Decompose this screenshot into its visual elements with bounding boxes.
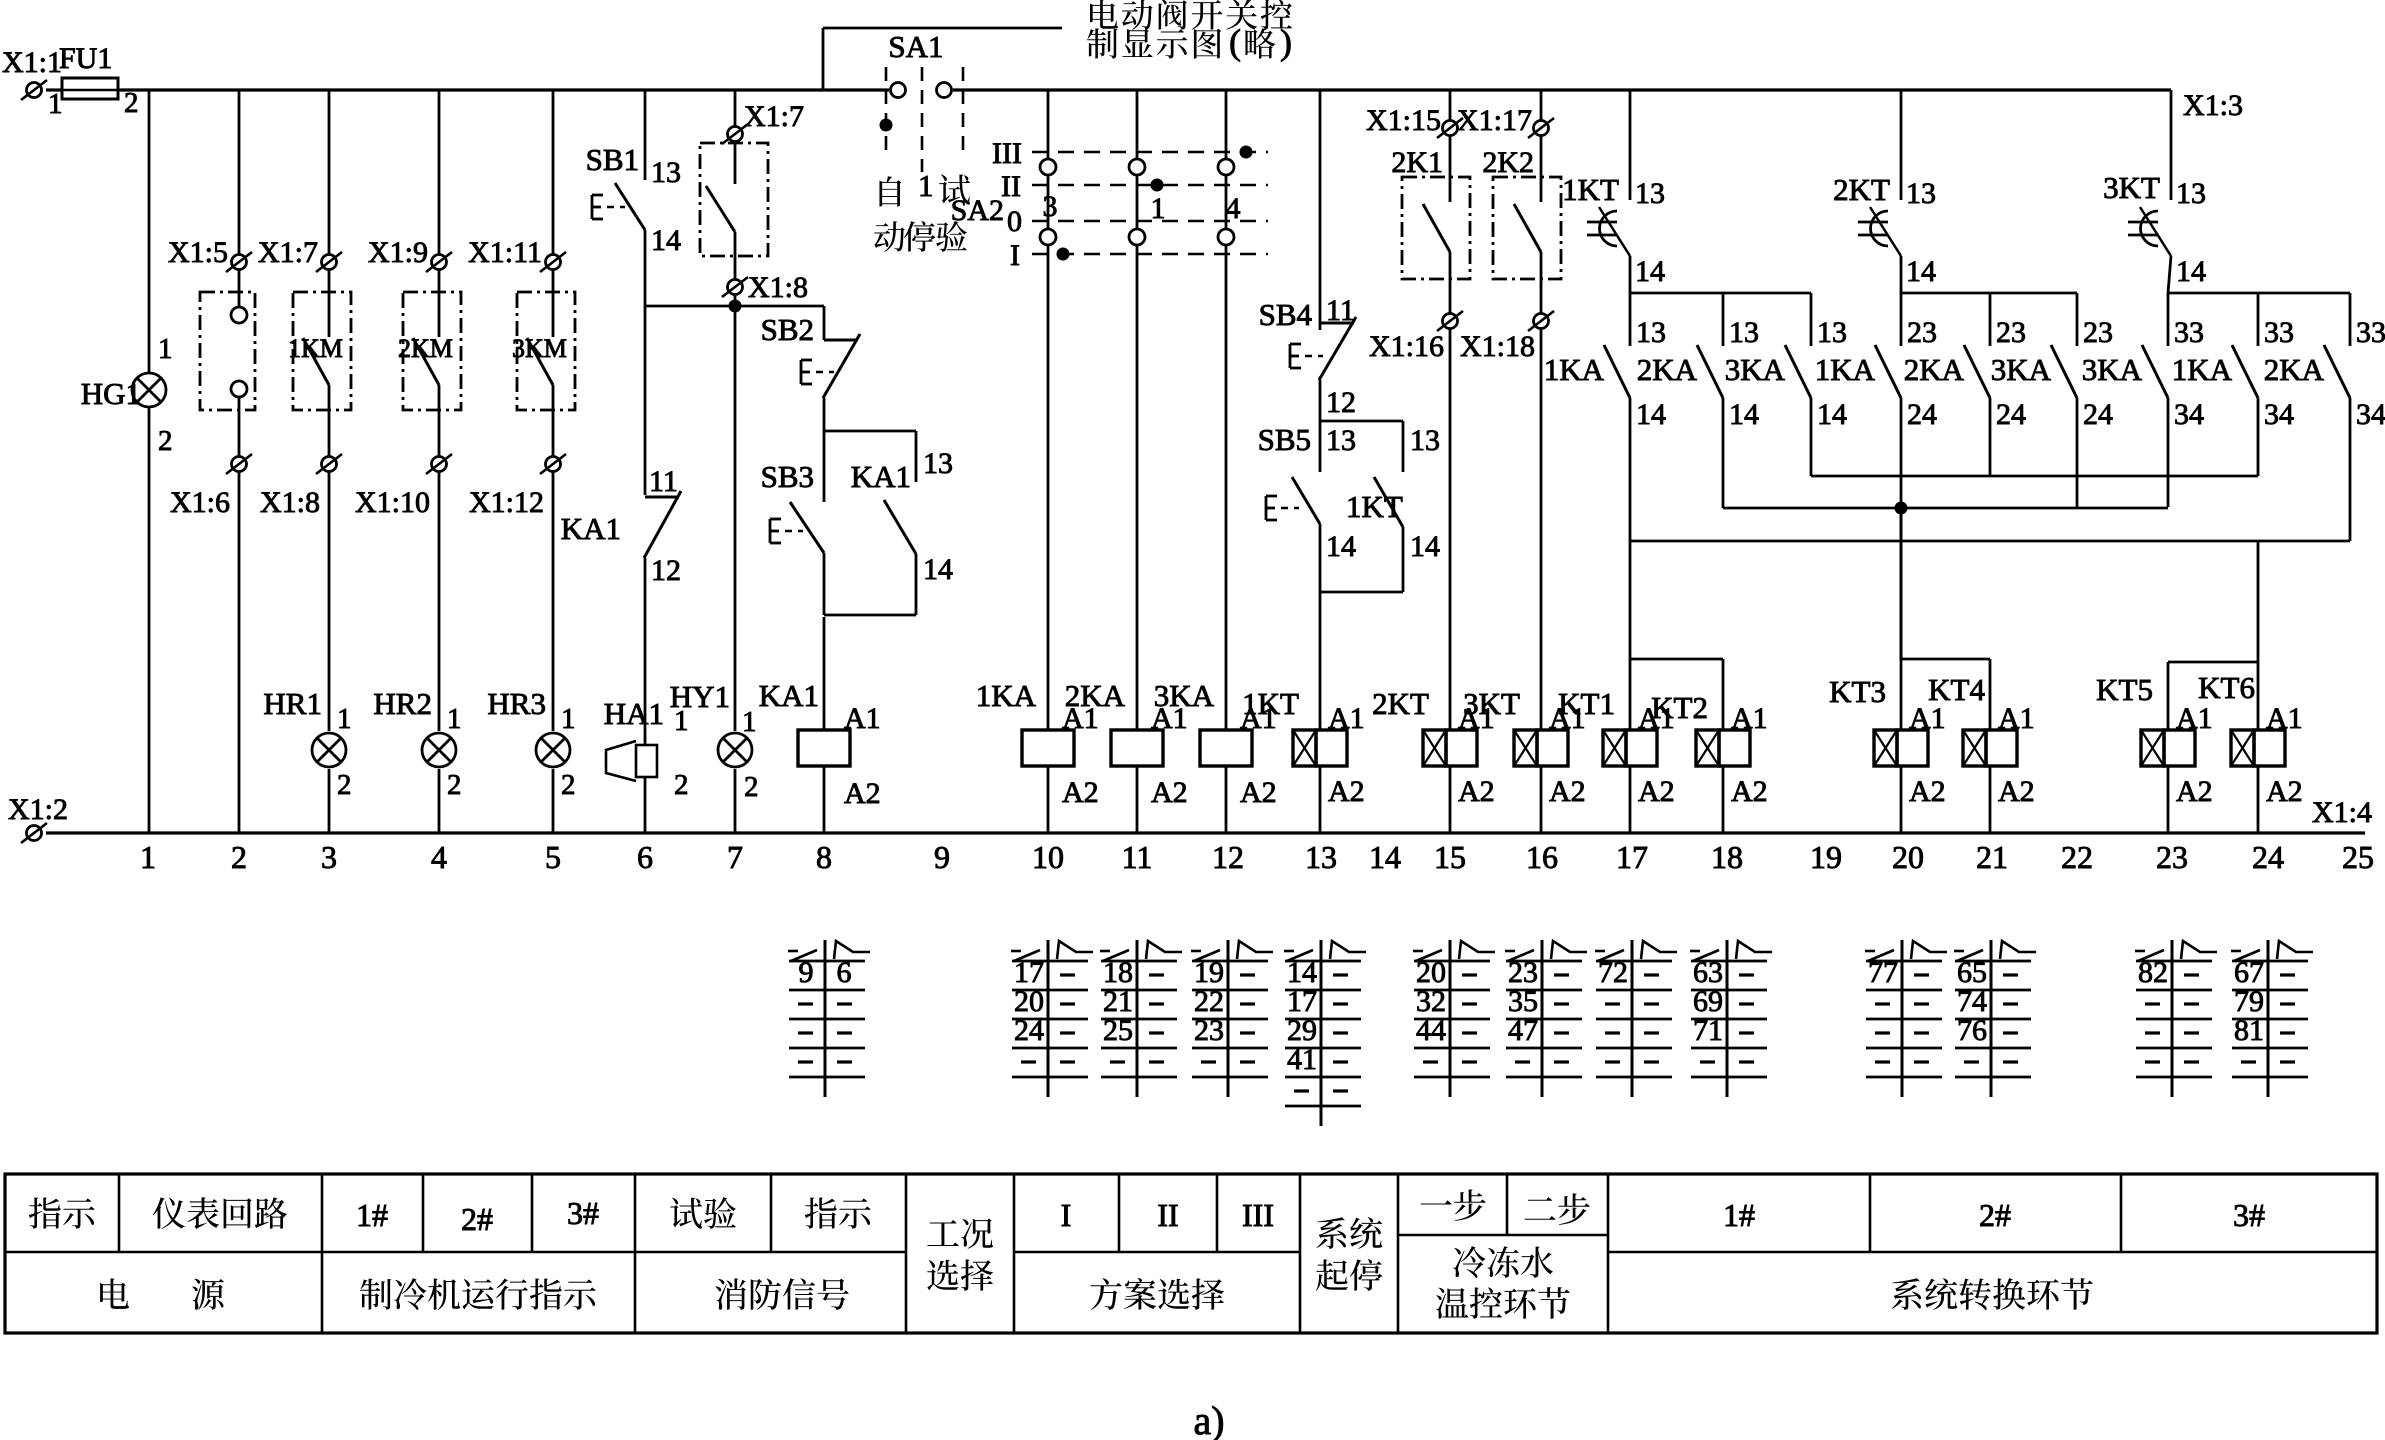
svg-text:81: 81	[2234, 1014, 2264, 1047]
svg-text:KT5: KT5	[2096, 672, 2153, 707]
wire column lower HR3	[552, 472, 555, 731]
contact 1KT (delayed NO 13-14)	[1629, 90, 1632, 200]
crossref table 2KA	[1136, 940, 1139, 1097]
svg-text:I: I	[1061, 1197, 1072, 1233]
svg-text:6: 6	[637, 839, 653, 875]
coil KA1	[798, 730, 850, 766]
svg-text:3: 3	[321, 839, 337, 875]
wire column to coil 3KT	[1540, 329, 1543, 730]
svg-text:13: 13	[651, 156, 681, 189]
wire column 2K1 top	[1449, 90, 1452, 120]
svg-text:A1: A1	[2266, 702, 2303, 735]
svg-text:A2: A2	[1328, 775, 1365, 808]
contact 2K2	[1540, 136, 1543, 202]
svg-text:33: 33	[2356, 316, 2385, 349]
contact 1KM	[328, 270, 331, 337]
coil KT5 (delayed)	[2141, 730, 2164, 766]
svg-text:3KT: 3KT	[1463, 686, 1520, 721]
svg-text:KT2: KT2	[1651, 690, 1708, 725]
svg-text:12: 12	[1326, 386, 1356, 419]
svg-text:33: 33	[2264, 316, 2294, 349]
annotation text motor valve diagram	[1090, 0, 1118, 29]
wire column 24 lower	[2257, 662, 2260, 730]
wire column 6 top	[644, 90, 647, 180]
lamp HY1	[718, 733, 752, 767]
svg-text:2K1: 2K1	[1391, 146, 1443, 179]
svg-text:2: 2	[124, 87, 139, 119]
svg-text:III: III	[992, 137, 1022, 170]
wire SA1 annotation branch	[822, 28, 825, 90]
svg-text:SB3: SB3	[761, 459, 814, 494]
wire column 7 top	[734, 90, 737, 126]
svg-text:19: 19	[1810, 839, 1842, 875]
svg-text:14: 14	[1636, 398, 1666, 431]
svg-text:A2: A2	[1731, 775, 1768, 808]
wire feed y293 group1 (cols 17-19)	[1630, 292, 1811, 295]
wire SA2 column x1226	[1225, 90, 1228, 159]
wire column 8 mid	[823, 398, 826, 431]
crossref table KT4	[1990, 940, 1993, 1097]
node junction col7/SB2 branch	[734, 295, 737, 306]
svg-text:72: 72	[1598, 956, 1628, 989]
coil 2KT (delayed)	[1423, 730, 1446, 766]
crossref table KT5	[2171, 940, 2174, 1097]
terminal X1:8	[322, 457, 337, 472]
svg-text:SB4: SB4	[1259, 297, 1313, 332]
svg-text:13: 13	[2176, 177, 2206, 210]
wire column lower HR1	[328, 472, 331, 731]
svg-text:A2: A2	[2176, 775, 2213, 808]
svg-text:X1:11: X1:11	[468, 236, 542, 269]
svg-text:HR3: HR3	[487, 686, 546, 721]
contact 3KA (13-14)	[1810, 293, 1813, 346]
terminal X1:7 (col7)	[728, 127, 743, 142]
wire connector KT5-KT6 y662	[2168, 661, 2258, 664]
svg-text:12: 12	[651, 554, 681, 587]
label SA1 positions	[879, 176, 901, 206]
svg-text:KA1: KA1	[759, 678, 819, 713]
wire column 23 lower	[2167, 662, 2170, 730]
terminal X1:7	[328, 90, 331, 254]
lamp HR2	[422, 733, 456, 767]
svg-text:HR1: HR1	[263, 686, 322, 721]
svg-text:14: 14	[923, 553, 953, 586]
terminal X1:5	[238, 90, 241, 254]
lamp HG1	[132, 373, 166, 407]
contact 2KM	[438, 270, 441, 337]
svg-text:3KT: 3KT	[2103, 170, 2160, 205]
svg-text:SB2: SB2	[761, 312, 814, 347]
wire column 6 middle	[644, 230, 647, 495]
svg-text:X1:17: X1:17	[1457, 104, 1532, 137]
contact 3KM	[552, 270, 555, 337]
svg-text:A2: A2	[1151, 776, 1188, 809]
coil KT6 (delayed)	[2231, 730, 2254, 766]
svg-text:KT6: KT6	[2198, 670, 2255, 705]
svg-text:13: 13	[1305, 839, 1337, 875]
svg-text:14: 14	[1729, 398, 1759, 431]
svg-text:1KA: 1KA	[2172, 352, 2233, 387]
wire SA2 column x1137	[1136, 90, 1139, 159]
crossref table 3KA	[1227, 940, 1230, 1097]
svg-text:8: 8	[816, 839, 832, 875]
svg-text:13: 13	[923, 447, 953, 480]
svg-text:1: 1	[1151, 192, 1166, 225]
dash-dot box 2KM	[403, 292, 461, 410]
svg-text:): )	[1280, 22, 1292, 62]
svg-text:2: 2	[561, 769, 576, 801]
svg-text:18: 18	[1711, 839, 1743, 875]
svg-text:HA1: HA1	[604, 696, 664, 731]
svg-text:a): a)	[1193, 1398, 1224, 1440]
svg-text:2: 2	[337, 769, 352, 801]
svg-text:X1:7: X1:7	[744, 100, 804, 133]
svg-text:(: (	[1229, 22, 1241, 62]
svg-text:4: 4	[1226, 192, 1241, 225]
svg-text:2#: 2#	[461, 1201, 493, 1237]
contact fire signal (NO 3-4)	[734, 142, 737, 184]
svg-text:HG1: HG1	[81, 376, 141, 411]
switch SA1 contacts	[891, 83, 906, 98]
svg-text:II: II	[1001, 170, 1021, 203]
svg-text:2: 2	[231, 839, 247, 875]
svg-text:13: 13	[1635, 177, 1665, 210]
wire column to coil 2KT	[1449, 329, 1452, 730]
svg-text:KA1: KA1	[851, 459, 911, 494]
wire column 13 to coil	[1319, 592, 1322, 730]
wire cross link y306 (col6 to SB2)	[645, 305, 824, 308]
svg-text:KT4: KT4	[1928, 672, 1985, 707]
wire connector KT3-KT4 y659	[1901, 658, 1990, 661]
svg-text:12: 12	[1212, 839, 1244, 875]
svg-text:KT3: KT3	[1829, 674, 1886, 709]
contact KA1 (NO 13-14 self-hold)	[915, 431, 918, 482]
crossref table KT2	[1726, 940, 1729, 1097]
coil 3KA	[1200, 730, 1252, 766]
svg-text:1: 1	[742, 706, 757, 738]
svg-text:23: 23	[1907, 316, 1937, 349]
svg-text:2KT: 2KT	[1372, 686, 1429, 721]
svg-text:A1: A1	[1731, 702, 1768, 735]
svg-text:X1:15: X1:15	[1366, 104, 1441, 137]
svg-text:33: 33	[2174, 316, 2204, 349]
crossref table 1KA	[1047, 940, 1050, 1097]
function table frame	[5, 1174, 2377, 1333]
contact 2K1	[1449, 136, 1452, 202]
svg-text:3#: 3#	[567, 1195, 599, 1231]
wire branch split y431	[824, 430, 916, 433]
svg-text:2#: 2#	[1979, 1197, 2011, 1233]
function table texts lower row	[100, 1278, 129, 1308]
svg-text:71: 71	[1693, 1014, 1723, 1047]
svg-text:HY1: HY1	[670, 679, 730, 714]
crossref table KT1	[1631, 940, 1634, 1097]
svg-text:14: 14	[1326, 530, 1356, 563]
svg-text:41: 41	[1287, 1043, 1317, 1076]
wire column 23 from bus corner	[2170, 90, 2173, 200]
wire column 2K2 top	[1540, 90, 1543, 120]
fuse FU1	[46, 88, 62, 91]
svg-text:23: 23	[2156, 839, 2188, 875]
svg-text:2KA: 2KA	[1637, 352, 1698, 387]
wire branch rejoin y592	[1320, 591, 1403, 594]
svg-text:20: 20	[1892, 839, 1924, 875]
svg-text:1: 1	[140, 839, 156, 875]
svg-text:5: 5	[545, 839, 561, 875]
svg-text:KA1: KA1	[561, 511, 621, 546]
svg-text:1: 1	[447, 703, 462, 735]
contact 1KA (33-34)	[2257, 293, 2260, 346]
svg-text:2KA: 2KA	[1065, 678, 1126, 713]
SA1 position dashed lines	[885, 67, 888, 153]
svg-text:3KA: 3KA	[1991, 352, 2052, 387]
svg-text:A2: A2	[2266, 775, 2303, 808]
svg-text:47: 47	[1508, 1014, 1538, 1047]
svg-text:24: 24	[1907, 398, 1937, 431]
svg-text:2KA: 2KA	[2264, 352, 2325, 387]
svg-text:34: 34	[2174, 398, 2204, 431]
dash-dot box 2K1	[1402, 177, 1470, 279]
function table texts upper row	[29, 1197, 61, 1228]
wire column 18 lower	[1722, 659, 1725, 730]
svg-text:2KM: 2KM	[398, 334, 453, 363]
svg-text:X1:1: X1:1	[2, 46, 62, 79]
svg-text:A2: A2	[1638, 775, 1675, 808]
svg-text:25: 25	[2342, 839, 2374, 875]
svg-text:14: 14	[651, 224, 681, 257]
svg-text:A2: A2	[1998, 775, 2035, 808]
svg-text:13: 13	[1326, 424, 1356, 457]
svg-text:14: 14	[2176, 255, 2206, 288]
svg-text:2K2: 2K2	[1482, 146, 1534, 179]
svg-text:KT1: KT1	[1558, 686, 1615, 721]
wire merge line B y508 (col18 to col23)	[1723, 507, 2168, 510]
svg-text:X1:2: X1:2	[8, 793, 68, 826]
terminal X1:1	[27, 83, 42, 98]
svg-text:23: 23	[1996, 316, 2026, 349]
svg-text:1#: 1#	[1723, 1197, 1755, 1233]
terminal X1:16	[1443, 314, 1458, 329]
svg-text:X1:7: X1:7	[258, 236, 318, 269]
coil 1KT (delayed)	[1293, 730, 1316, 766]
crossref table KA1	[824, 940, 827, 1097]
dash-dot box 2K2	[1493, 177, 1561, 279]
wire merge line C y541 (col17 to col25)	[1630, 540, 2350, 543]
svg-text:17: 17	[1616, 839, 1648, 875]
terminal X1:11	[552, 90, 555, 254]
svg-text:1KM: 1KM	[288, 334, 343, 363]
wire column 6 lower	[644, 558, 647, 745]
svg-text:13: 13	[1636, 316, 1666, 349]
pushbutton SB5 (NO 13-14)	[1319, 421, 1322, 472]
coil 3KT (delayed)	[1514, 730, 1537, 766]
svg-text:X1:8: X1:8	[748, 271, 808, 304]
svg-text:II: II	[1157, 1197, 1178, 1233]
coil KT4 (delayed)	[1963, 730, 1986, 766]
crossref table KT6	[2267, 940, 2270, 1097]
wire column 20 to coil KT3	[1900, 508, 1903, 730]
svg-text:1: 1	[561, 703, 576, 735]
svg-text:34: 34	[2264, 398, 2294, 431]
svg-text:A2: A2	[1062, 776, 1099, 809]
svg-text:13: 13	[1906, 177, 1936, 210]
wire column 2 lower	[238, 472, 241, 833]
svg-text:3KA: 3KA	[1725, 352, 1786, 387]
wire bottom bus L2	[46, 831, 2365, 834]
svg-text:4: 4	[431, 839, 447, 875]
svg-text:14: 14	[1410, 530, 1440, 563]
svg-text:X1:12: X1:12	[469, 486, 544, 519]
contact 1KA (23-24)	[1900, 293, 1903, 346]
svg-text:A2: A2	[1240, 776, 1277, 809]
lamp HR3	[536, 733, 570, 767]
terminal X1:18	[1534, 314, 1549, 329]
svg-text:9: 9	[799, 956, 814, 989]
svg-text:SB5: SB5	[1258, 422, 1311, 457]
svg-text:X1:16: X1:16	[1369, 330, 1444, 363]
contact 2KT (delayed NO 13-14)	[1900, 90, 1903, 200]
wire column 17 to coil KT1	[1629, 659, 1632, 730]
svg-text:2: 2	[447, 769, 462, 801]
contact 1KA (13-14)	[1629, 293, 1632, 346]
svg-text:1KA: 1KA	[1815, 352, 1876, 387]
wire column 13 top	[1319, 90, 1322, 330]
svg-text:1KT: 1KT	[1562, 172, 1619, 207]
svg-text:1: 1	[48, 88, 63, 120]
svg-text:1KT: 1KT	[1242, 686, 1299, 721]
lamp HR1	[312, 733, 346, 767]
svg-text:7: 7	[727, 839, 743, 875]
wire connector KT1-KT2 y659	[1630, 658, 1723, 661]
terminal X1:10	[432, 457, 447, 472]
wire feed y293 group3 (cols 23-25)	[2168, 292, 2350, 295]
contact 3KA (23-24)	[2076, 293, 2079, 346]
svg-text:1KT: 1KT	[1346, 489, 1403, 524]
svg-text:1: 1	[918, 168, 934, 203]
svg-text:2KA: 2KA	[1904, 352, 1965, 387]
crossref table KT3	[1901, 940, 1904, 1097]
coil 2KA	[1111, 730, 1163, 766]
plug contacts instrument loop	[238, 270, 241, 307]
svg-text:14: 14	[1817, 398, 1847, 431]
svg-text:A1: A1	[1328, 702, 1365, 735]
svg-text:0: 0	[1007, 205, 1022, 238]
svg-text:14: 14	[1635, 255, 1665, 288]
svg-text:24: 24	[2252, 839, 2284, 875]
svg-text:X1:8: X1:8	[260, 486, 320, 519]
svg-text:11: 11	[649, 465, 678, 498]
wire column 13 mid	[1319, 380, 1322, 421]
contact 2KA (33-34)	[2349, 293, 2352, 346]
svg-text:10: 10	[1032, 839, 1064, 875]
svg-text:2: 2	[674, 769, 689, 801]
svg-text:25: 25	[1103, 1014, 1133, 1047]
svg-text:14: 14	[1906, 255, 1936, 288]
wire column 7 lower	[734, 306, 737, 731]
svg-text:X1:18: X1:18	[1460, 330, 1535, 363]
svg-text:3: 3	[1043, 190, 1058, 223]
svg-text:24: 24	[1996, 398, 2026, 431]
wire column 8 top	[823, 306, 826, 340]
svg-text:77: 77	[1868, 956, 1898, 989]
svg-text:A1: A1	[2176, 702, 2213, 735]
terminal X1:9	[438, 90, 441, 254]
svg-text:X1:3: X1:3	[2183, 89, 2243, 122]
svg-text:13: 13	[1410, 424, 1440, 457]
svg-text:X1:9: X1:9	[368, 236, 428, 269]
svg-text:FU1: FU1	[59, 42, 112, 75]
dash-dot box 3KM	[517, 292, 575, 410]
coil KT3 (delayed)	[1874, 730, 1897, 766]
svg-text:3#: 3#	[2233, 1197, 2265, 1233]
svg-text:2KT: 2KT	[1833, 172, 1890, 207]
terminal X1:6	[232, 457, 247, 472]
svg-text:SA1: SA1	[888, 29, 943, 64]
wire column 8 to coil	[823, 617, 826, 730]
wire feed y293 group2 (cols 20-22)	[1901, 292, 2077, 295]
svg-text:A1: A1	[844, 702, 881, 735]
contact 2KA (13-14)	[1722, 293, 1725, 346]
svg-text:A2: A2	[1458, 775, 1495, 808]
pushbutton SB3 (NO)	[823, 431, 826, 502]
svg-text:2: 2	[744, 771, 759, 803]
svg-text:3KM: 3KM	[512, 334, 567, 363]
terminal X1:15	[1443, 121, 1458, 136]
svg-text:III: III	[1242, 1197, 1274, 1233]
wire top bus L1	[118, 88, 889, 91]
svg-text:1: 1	[337, 703, 352, 735]
contact 3KA (33-34)	[2167, 293, 2170, 346]
SA2 selected position dots	[1057, 248, 1070, 261]
svg-text:A2: A2	[844, 777, 881, 810]
coil KT2 (delayed)	[1696, 730, 1719, 766]
terminal X1:12	[546, 457, 561, 472]
svg-text:X1:10: X1:10	[355, 486, 430, 519]
svg-text:21: 21	[1976, 839, 2008, 875]
svg-text:15: 15	[1434, 839, 1466, 875]
terminal X1:8 (col7)	[728, 280, 743, 295]
wire column 1	[148, 90, 151, 373]
bell HA1	[606, 741, 636, 781]
svg-text:6: 6	[837, 956, 852, 989]
node junction col20/line B	[1895, 502, 1908, 515]
crossref table 1KT	[1320, 940, 1323, 1126]
svg-text:1KA: 1KA	[976, 678, 1037, 713]
svg-text:14: 14	[1369, 839, 1401, 875]
terminal X1:2	[27, 826, 42, 841]
svg-text:23: 23	[2083, 316, 2113, 349]
svg-text:3KA: 3KA	[2082, 352, 2143, 387]
svg-text:9: 9	[934, 839, 950, 875]
svg-text:1KA: 1KA	[1544, 352, 1605, 387]
svg-text:2: 2	[158, 425, 173, 457]
svg-text:X1:4: X1:4	[2312, 796, 2372, 829]
svg-text:22: 22	[2061, 839, 2093, 875]
svg-text:24: 24	[2083, 398, 2113, 431]
svg-text:X1:5: X1:5	[168, 236, 228, 269]
wire column lower HR2	[438, 472, 441, 731]
svg-text:1: 1	[158, 333, 173, 365]
svg-text:24: 24	[1014, 1014, 1044, 1047]
svg-text:23: 23	[1194, 1014, 1224, 1047]
svg-text:82: 82	[2138, 956, 2168, 989]
svg-text:A2: A2	[1909, 775, 1946, 808]
svg-text:3KA: 3KA	[1154, 678, 1215, 713]
terminal X1:17	[1534, 121, 1549, 136]
svg-text:16: 16	[1526, 839, 1558, 875]
svg-text:I: I	[1010, 239, 1020, 272]
svg-text:11: 11	[1122, 839, 1153, 875]
